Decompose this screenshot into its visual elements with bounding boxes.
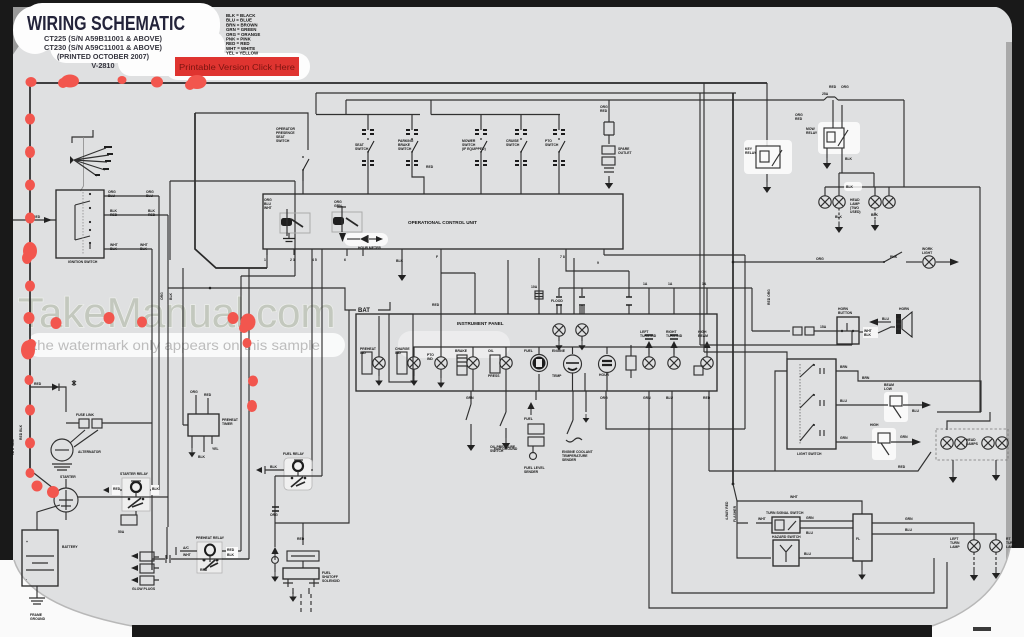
svg-text:ORG: ORG <box>600 396 608 400</box>
vertical feed 704 <box>703 83 705 352</box>
light switch left feed <box>700 93 852 471</box>
svg-text:LAMPS: LAMPS <box>966 442 979 446</box>
left turn indicator lamp <box>640 330 657 369</box>
preheat timer <box>183 268 239 459</box>
headlamp bus <box>825 186 980 188</box>
pto switch S6 <box>545 115 565 195</box>
svg-text:LOW: LOW <box>884 387 893 391</box>
svg-text:BLU: BLU <box>666 396 674 400</box>
alternator <box>51 404 101 470</box>
operational control unit box <box>263 194 623 249</box>
svg-text:the watermark only appears on: the watermark only appears on this sampl… <box>33 338 320 353</box>
svg-text:TIMER: TIMER <box>222 422 233 426</box>
svg-text:LIGHT: LIGHT <box>922 251 933 255</box>
wire work light feed <box>604 255 745 429</box>
long vertical from ignition 1 <box>158 196 160 490</box>
right black bar <box>1012 0 1024 637</box>
svg-text:WHT: WHT <box>790 495 799 499</box>
svg-text:GRN: GRN <box>643 396 651 400</box>
switch row bracket A <box>316 114 420 116</box>
svg-text:BLU: BLU <box>840 399 848 403</box>
svg-text:YEL: YEL <box>212 447 219 451</box>
mower switch S4 <box>462 115 487 195</box>
OCU pin drop 441 <box>432 249 441 314</box>
svg-text:TakeManual.com: TakeManual.com <box>18 289 335 336</box>
svg-text:BLU: BLU <box>806 531 814 535</box>
wire top bus 2 <box>316 93 736 114</box>
svg-text:BLK: BLK <box>270 465 278 469</box>
svg-text:IND: IND <box>427 357 433 361</box>
watermark pill <box>27 333 345 357</box>
button white cloud <box>165 53 310 80</box>
svg-text:RED BLK: RED BLK <box>19 424 23 440</box>
svg-text:ALTERNATOR: ALTERNATOR <box>78 450 101 454</box>
fuel shutoff solenoid <box>283 568 340 612</box>
bottom-right white page curl <box>932 548 1024 637</box>
wiring harness fanout <box>70 130 113 191</box>
high beam fuse <box>836 423 921 460</box>
ignition output wire 1 <box>104 190 159 198</box>
svg-text:SWITCH: SWITCH <box>276 139 290 143</box>
svg-text:RED: RED <box>600 109 608 113</box>
bus label pill <box>844 182 862 191</box>
svg-text:(IF EQUIPPED): (IF EQUIPPED) <box>462 147 486 151</box>
svg-text:6: 6 <box>344 258 346 262</box>
flasher module <box>853 514 996 580</box>
svg-text:BLK: BLK <box>846 185 854 189</box>
high beam indicator lamp <box>694 330 713 375</box>
svg-text:YEL = YELLOW: YEL = YELLOW <box>226 51 259 56</box>
svg-text:TEMP: TEMP <box>552 374 562 378</box>
svg-text:BLU: BLU <box>882 317 890 321</box>
svg-text:SWITCH: SWITCH <box>545 143 559 147</box>
headlamp bracket <box>839 173 874 187</box>
svg-text:HAZARD SWITCH: HAZARD SWITCH <box>772 535 801 539</box>
svg-text:STARTER RELAY: STARTER RELAY <box>120 472 149 476</box>
indicator feeds above panel <box>556 282 752 331</box>
svg-text:WHT: WHT <box>758 517 767 521</box>
svg-text:BLK: BLK <box>835 215 843 219</box>
svg-text:FUSE LINK: FUSE LINK <box>76 413 94 417</box>
svg-text:OIL: OIL <box>488 349 494 353</box>
svg-text:RED: RED <box>426 165 434 169</box>
svg-text:BLK: BLK <box>871 213 879 217</box>
svg-text:FUEL: FUEL <box>524 417 533 421</box>
svg-text:F: F <box>436 255 438 259</box>
svg-text:BLU: BLU <box>912 409 920 413</box>
title white cloud <box>13 3 230 76</box>
svg-text:4-WAY RED: 4-WAY RED <box>725 501 729 520</box>
panel lamp charge ind <box>395 347 420 386</box>
svg-text:SOLENOID: SOLENOID <box>322 579 340 583</box>
ignition feed wire <box>13 215 56 223</box>
svg-text:OPERATIONAL CONTROL UNIT: OPERATIONAL CONTROL UNIT <box>408 220 477 225</box>
wire relay feed vertical <box>766 83 768 146</box>
OCU diode pill <box>344 233 388 250</box>
engine coolant temp sender <box>562 391 594 462</box>
solenoid fuse <box>287 551 319 568</box>
fuel solenoid feed <box>270 310 349 547</box>
svg-text:FL: FL <box>856 537 860 541</box>
svg-text:BLK: BLK <box>140 247 148 251</box>
panel feed fuse drops <box>441 258 574 314</box>
OCU pin return wires <box>241 249 295 559</box>
svg-text:+: + <box>26 540 28 544</box>
svg-text:TURN IND: TURN IND <box>640 334 657 338</box>
svg-text:GLOW PLUGS: GLOW PLUGS <box>132 587 156 591</box>
svg-text:RED: RED <box>898 465 906 469</box>
svg-text:BRN: BRN <box>862 376 870 380</box>
bottom black bar <box>0 625 1024 637</box>
svg-text:RED: RED <box>34 382 42 386</box>
svg-text:BLK: BLK <box>169 292 173 300</box>
svg-text:SENDER: SENDER <box>562 458 577 462</box>
svg-text:A/C: A/C <box>183 546 189 550</box>
svg-text:LAMP: LAMP <box>950 545 960 549</box>
head lamp L3 <box>869 187 881 208</box>
svg-text:BUTTON: BUTTON <box>838 311 853 315</box>
starter relay <box>78 472 168 534</box>
svg-text:HOUR METER: HOUR METER <box>358 246 381 250</box>
svg-text:SWITCH: SWITCH <box>506 143 520 147</box>
oil pressure switch <box>466 391 516 453</box>
vertical bundle labels <box>160 292 173 300</box>
svg-text:15A: 15A <box>820 325 827 329</box>
printable version button <box>175 57 299 76</box>
horn speaker <box>859 307 912 338</box>
panel lamp brake ind <box>455 349 479 375</box>
svg-text:4 5: 4 5 <box>312 258 317 262</box>
fuse F1 on bus 3 <box>822 92 838 100</box>
light switch out A <box>836 365 981 412</box>
svg-text:(PRINTED OCTOBER 2007): (PRINTED OCTOBER 2007) <box>57 52 150 61</box>
mower relay grounds <box>823 148 853 173</box>
rear turn lamp right <box>990 537 1017 579</box>
svg-text:TURN IND: TURN IND <box>666 334 683 338</box>
svg-text:OUTLET: OUTLET <box>618 151 632 155</box>
frame ground <box>29 586 46 621</box>
right turn feed drop long <box>666 391 934 593</box>
svg-text:BLU: BLU <box>905 528 913 532</box>
head lamps label <box>850 198 861 214</box>
svg-text:FLOOD: FLOOD <box>551 299 563 303</box>
brake switch S2 <box>355 115 374 195</box>
svg-text:-: - <box>26 577 27 581</box>
top black bar <box>0 0 1024 7</box>
fuel level sender <box>524 391 545 474</box>
OCU bottom pin stubs and labels <box>264 249 363 476</box>
inner wire y181 <box>170 170 303 276</box>
svg-text:ORG: ORG <box>816 257 824 261</box>
wire flasher feed vertical <box>732 93 734 484</box>
svg-text:RED: RED <box>795 117 803 121</box>
temp gauge <box>552 349 582 378</box>
svg-text:IND: IND <box>395 351 401 355</box>
horn button box <box>837 307 859 344</box>
svg-text:BAT: BAT <box>358 308 370 314</box>
svg-text:TURN SIGNAL SWITCH: TURN SIGNAL SWITCH <box>766 511 804 515</box>
svg-text:USED): USED) <box>850 210 861 214</box>
svg-text:BRAKE: BRAKE <box>455 349 468 353</box>
OCU ground pin <box>396 249 406 281</box>
ignition output wire 3 <box>104 243 152 251</box>
svg-text:BLK: BLK <box>110 247 118 251</box>
svg-text:RELAY: RELAY <box>745 151 757 155</box>
fusible links <box>66 413 152 428</box>
lamp grounds <box>835 208 879 233</box>
wire top bus 3 <box>346 100 904 114</box>
glow plug feed <box>152 527 249 570</box>
svg-text:GRN: GRN <box>334 204 342 208</box>
svg-text:BLU: BLU <box>108 194 116 198</box>
svg-text:IGNITION SWITCH: IGNITION SWITCH <box>68 260 98 264</box>
svg-text:FUEL: FUEL <box>524 349 533 353</box>
wire bus1 labels <box>795 85 849 121</box>
svg-text:9: 9 <box>597 261 599 265</box>
wire right bus drop <box>904 100 980 412</box>
panel lamp oil ind <box>488 349 512 378</box>
parking brake switch S3 <box>398 115 434 195</box>
wire top bus 1 <box>30 82 767 84</box>
svg-text:CT225 (S/N A59B11001 & ABOVE): CT225 (S/N A59B11001 & ABOVE) <box>44 34 163 43</box>
glow plugs <box>131 552 159 591</box>
right turn indicator lamp <box>666 330 683 369</box>
svg-text:GRN: GRN <box>905 517 913 521</box>
svg-text:BLK: BLK <box>152 487 160 491</box>
svg-text:BLK: BLK <box>396 259 404 263</box>
mower relay K2 <box>806 100 860 154</box>
svg-text:SWITCH: SWITCH <box>398 147 412 151</box>
panel lamp pto ind <box>427 353 447 388</box>
svg-text:ORG: ORG <box>841 85 849 89</box>
switch row bracket B <box>431 100 560 115</box>
svg-text:RED: RED <box>110 213 118 217</box>
bottom red bus <box>709 452 931 471</box>
svg-text:WIRING SCHEMATIC: WIRING SCHEMATIC <box>27 12 185 35</box>
key relay K1 <box>744 140 792 193</box>
svg-text:WHT RED: WHT RED <box>11 439 15 455</box>
svg-text:BLK: BLK <box>864 333 872 337</box>
svg-text:SWITCH: SWITCH <box>355 147 369 151</box>
svg-text:2 3: 2 3 <box>290 258 295 262</box>
svg-text:RED: RED <box>703 396 711 400</box>
svg-text:Printable Version Click Here: Printable Version Click Here <box>179 62 295 72</box>
svg-text:ENG GROUND: ENG GROUND <box>494 447 518 451</box>
turn signal switch <box>737 501 853 558</box>
long vertical from ignition 3 <box>151 249 153 570</box>
left black bar <box>0 0 13 592</box>
svg-text:PNK: PNK <box>890 255 898 259</box>
svg-text:10A: 10A <box>531 285 538 289</box>
svg-text:GRN: GRN <box>900 435 908 439</box>
svg-text:50A: 50A <box>118 530 125 534</box>
red feed drop <box>703 391 711 471</box>
svg-text:FLASHER: FLASHER <box>733 505 737 522</box>
svg-text:BATTERY: BATTERY <box>62 545 78 549</box>
work light row <box>732 247 959 268</box>
long vertical from ignition 2 <box>167 215 169 527</box>
red blob row top <box>26 75 207 91</box>
svg-text:IND: IND <box>360 351 366 355</box>
svg-text:BLK: BLK <box>198 455 206 459</box>
temp switch S5 <box>506 115 527 195</box>
svg-text:GRN: GRN <box>840 436 848 440</box>
svg-text:RED: RED <box>432 303 440 307</box>
svg-text:HOUR: HOUR <box>599 373 610 377</box>
hour meter gauge <box>599 356 616 378</box>
panel connector <box>626 345 636 378</box>
svg-text:RED: RED <box>113 487 121 491</box>
svg-text:ORG: ORG <box>190 390 198 394</box>
svg-text:BRN: BRN <box>840 365 848 369</box>
svg-text:ORG: ORG <box>270 513 278 517</box>
svg-text:BLK: BLK <box>227 553 235 557</box>
svg-text:SENDER: SENDER <box>524 470 539 474</box>
starter motor <box>30 470 78 520</box>
bottom-left white page curl <box>0 560 132 637</box>
ignition output wire 2 <box>104 209 168 217</box>
accessory row <box>752 325 837 335</box>
svg-text:FUEL RELAY: FUEL RELAY <box>283 452 305 456</box>
light switch box <box>787 359 836 456</box>
svg-text:RED: RED <box>204 393 212 397</box>
svg-text:1A: 1A <box>643 282 648 286</box>
head lamp L1 <box>819 187 831 208</box>
rear turn lamp left <box>950 537 980 581</box>
horn arrow <box>869 317 891 326</box>
svg-text:RED: RED <box>200 568 208 572</box>
panel lamp glow plug ind <box>360 347 385 386</box>
svg-text:LIGHT SWITCH: LIGHT SWITCH <box>797 452 822 456</box>
page mark bottom right <box>973 627 991 631</box>
svg-text:1A: 1A <box>668 282 673 286</box>
diode branch from bus <box>30 380 76 404</box>
svg-text:1: 1 <box>264 258 266 262</box>
svg-text:RELAY: RELAY <box>806 131 818 135</box>
svg-text:RED: RED <box>227 548 235 552</box>
head lamp L2 <box>833 187 845 208</box>
OCU pin drop 566 <box>560 249 629 314</box>
svg-text:GRN: GRN <box>806 516 814 520</box>
svg-text:CT230 (S/N A59C11001 & ABOVE): CT230 (S/N A59C11001 & ABOVE) <box>44 43 163 52</box>
red blob row watermark <box>51 312 259 412</box>
OCU relay cell 1 <box>264 198 310 242</box>
charge drop switch <box>494 391 518 451</box>
BAT label wire <box>168 287 390 314</box>
red blob column left <box>21 114 59 499</box>
ignition switch box <box>56 190 104 264</box>
low beam fuse <box>836 383 931 422</box>
hazard switch <box>772 535 853 566</box>
instrument panel box <box>356 314 717 391</box>
svg-text:RED: RED <box>297 537 305 541</box>
page curl gray wedge top left <box>12 7 46 56</box>
wire labels left bus <box>11 424 23 455</box>
svg-text:V-2810: V-2810 <box>91 61 114 70</box>
svg-text:WHT: WHT <box>183 553 192 557</box>
svg-text:RED: RED <box>829 85 837 89</box>
svg-text:BEAM: BEAM <box>884 383 894 387</box>
panel inner lamp B <box>576 306 588 350</box>
turn signal bus <box>732 483 862 514</box>
svg-text:HIGH: HIGH <box>870 423 879 427</box>
svg-text:BLU: BLU <box>146 194 154 198</box>
hold diode <box>271 547 279 582</box>
svg-text:PREHEAT RELAY: PREHEAT RELAY <box>196 536 225 540</box>
svg-text:WHT: WHT <box>264 206 273 210</box>
svg-text:HORN: HORN <box>899 307 910 311</box>
OCU pin drop 604 <box>597 249 604 265</box>
svg-text:STARTER: STARTER <box>60 475 76 479</box>
page shadow right edge <box>1006 42 1012 617</box>
spare power outlet J1 <box>600 100 632 189</box>
preheat relay <box>176 536 249 573</box>
svg-text:BLK: BLK <box>845 157 853 161</box>
svg-text:RED: RED <box>148 213 156 217</box>
svg-text:GROUND: GROUND <box>30 617 46 621</box>
left turn feed drop long <box>643 391 947 608</box>
svg-text:LAMP: LAMP <box>1006 545 1016 549</box>
svg-text:25A: 25A <box>822 92 829 96</box>
main feed vertical to OCU <box>195 113 267 268</box>
svg-text:PRESS: PRESS <box>488 374 500 378</box>
svg-text:7 8: 7 8 <box>560 255 565 259</box>
fuel gauge <box>524 349 548 372</box>
svg-text:ORG: ORG <box>160 292 164 300</box>
panel inner lamp A <box>551 299 565 350</box>
OCU relay cell 2 <box>332 200 362 242</box>
svg-text:GRN: GRN <box>466 396 474 400</box>
battery <box>22 505 78 586</box>
svg-text:INSTRUMENT PANEL: INSTRUMENT PANEL <box>457 321 504 326</box>
fuel relay <box>256 452 322 490</box>
wire left bus vertical <box>29 83 31 470</box>
horn feed drop <box>600 391 745 429</box>
headlamp group dashed box <box>936 412 1008 483</box>
head lamp L4 <box>883 187 895 208</box>
wire color legend <box>226 13 260 56</box>
svg-text:RED ORG: RED ORG <box>767 289 771 305</box>
4-way flasher label <box>725 501 737 522</box>
seat switch S1 <box>195 113 309 194</box>
svg-text:BLU: BLU <box>804 552 812 556</box>
